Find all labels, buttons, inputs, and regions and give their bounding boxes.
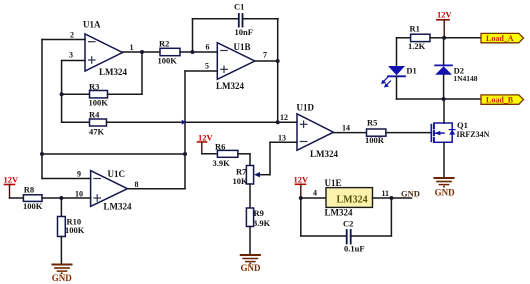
svg-text:100R: 100R bbox=[365, 135, 385, 145]
svg-text:U1A: U1A bbox=[83, 20, 101, 30]
LED D1 bbox=[381, 38, 417, 99]
svg-text:47K: 47K bbox=[89, 127, 105, 137]
svg-text:10K: 10K bbox=[233, 176, 249, 186]
wire U1A pin3 bbox=[62, 60, 85, 62]
transistor Q1 bbox=[431, 120, 489, 143]
svg-text:U1E: U1E bbox=[325, 178, 342, 188]
svg-text:C2: C2 bbox=[343, 219, 353, 229]
node U1B out bbox=[276, 59, 280, 63]
resistor R9 bbox=[246, 184, 270, 255]
op-amp U1B bbox=[205, 42, 267, 91]
wire load rail bbox=[397, 98, 482, 100]
svg-text:LM324: LM324 bbox=[99, 67, 127, 77]
svg-text:100K: 100K bbox=[23, 201, 43, 211]
svg-text:Load_A: Load_A bbox=[486, 34, 514, 43]
svg-text:C1: C1 bbox=[234, 2, 244, 12]
port Load_A bbox=[481, 33, 524, 43]
port Load_B bbox=[481, 95, 524, 105]
svg-text:3: 3 bbox=[69, 51, 73, 60]
svg-text:12V: 12V bbox=[437, 10, 453, 20]
resistor R2 bbox=[158, 39, 218, 66]
svg-text:D1: D1 bbox=[406, 66, 416, 76]
svg-text:IRFZ34N: IRFZ34N bbox=[457, 130, 490, 139]
svg-text:R1: R1 bbox=[410, 24, 420, 34]
svg-text:U1D: U1D bbox=[297, 103, 315, 113]
svg-text:GND: GND bbox=[435, 188, 456, 198]
svg-text:6: 6 bbox=[206, 43, 210, 52]
svg-text:12: 12 bbox=[280, 113, 288, 122]
svg-text:LM324: LM324 bbox=[216, 81, 244, 91]
svg-text:0.1uF: 0.1uF bbox=[344, 244, 365, 254]
node drain rail bbox=[442, 97, 446, 101]
svg-text:3.9K: 3.9K bbox=[213, 158, 231, 168]
capacitor C1 bbox=[193, 2, 279, 38]
resistor R4 bbox=[62, 110, 107, 137]
svg-text:R2: R2 bbox=[159, 39, 169, 49]
resistor R10 bbox=[58, 198, 85, 265]
wire U1A output bbox=[123, 51, 161, 53]
op-amp U1C bbox=[75, 169, 139, 212]
op-amp U1D bbox=[278, 103, 350, 160]
svg-text:1.2K: 1.2K bbox=[408, 41, 426, 51]
svg-text:U1B: U1B bbox=[234, 42, 251, 52]
svg-text:GND: GND bbox=[241, 263, 262, 273]
svg-text:Q1: Q1 bbox=[457, 120, 468, 130]
node ref mid bbox=[183, 152, 187, 156]
wire U1A pin2 bbox=[42, 39, 85, 41]
node 12V pin4 bbox=[299, 196, 303, 200]
resistor R6 bbox=[202, 142, 250, 169]
svg-text:14: 14 bbox=[342, 124, 350, 133]
wire to Load_A bbox=[444, 37, 481, 39]
node 12V rail bbox=[442, 36, 446, 40]
svg-text:100K: 100K bbox=[89, 98, 109, 108]
wire U1C pin9 bbox=[42, 178, 91, 180]
svg-text:1N4148: 1N4148 bbox=[453, 74, 477, 83]
svg-text:R9: R9 bbox=[254, 208, 264, 218]
svg-text:9: 9 bbox=[77, 170, 81, 179]
svg-text:LM324: LM324 bbox=[337, 195, 368, 206]
wire ref horizontal bbox=[42, 153, 185, 155]
wire feedback vertical bbox=[61, 61, 63, 123]
node ref-left bbox=[40, 152, 44, 156]
ground under R10 bbox=[52, 265, 73, 284]
svg-text:2: 2 bbox=[70, 31, 74, 40]
wire ref vertical mid bbox=[184, 71, 186, 189]
wire Q1 drain up bbox=[443, 99, 445, 123]
power 12V left bbox=[4, 175, 20, 199]
svg-text:7: 7 bbox=[263, 51, 267, 60]
wire C1 right down to U1B out bbox=[277, 19, 279, 123]
svg-text:R7: R7 bbox=[236, 167, 247, 177]
ground under Q1 bbox=[434, 178, 455, 198]
svg-text:LM324: LM324 bbox=[310, 149, 338, 159]
power 12V mid bbox=[198, 133, 214, 154]
svg-text:1: 1 bbox=[130, 43, 134, 52]
svg-text:10nF: 10nF bbox=[235, 27, 253, 37]
wire R3 to U1A out bbox=[141, 52, 143, 94]
node R2 right bbox=[191, 50, 195, 54]
wire triangle signal to U1D pin12 bbox=[107, 121, 298, 123]
resistor R5 bbox=[365, 117, 431, 145]
wire U1B output bbox=[255, 60, 278, 62]
op-amp U1A bbox=[69, 20, 134, 78]
wire R7 wiper to U1D pin13 bbox=[269, 142, 271, 174]
capacitor C2 bbox=[301, 198, 392, 254]
diode D2 bbox=[435, 38, 478, 99]
node R3 left bbox=[60, 92, 64, 96]
wire U1E pin11 bbox=[373, 197, 412, 199]
svg-text:12V: 12V bbox=[4, 175, 20, 185]
svg-text:10: 10 bbox=[75, 190, 83, 199]
svg-text:R6: R6 bbox=[215, 142, 225, 152]
svg-text:R8: R8 bbox=[24, 185, 34, 195]
power 12V U1E bbox=[294, 175, 310, 199]
wire U1C out bbox=[127, 188, 185, 190]
wire Q1 source down bbox=[443, 142, 445, 177]
node pin11 bbox=[389, 196, 393, 200]
ground under R9 bbox=[241, 255, 262, 273]
node U1A out bbox=[140, 50, 144, 54]
svg-text:R3: R3 bbox=[89, 82, 99, 92]
svg-text:GND: GND bbox=[401, 189, 420, 199]
svg-text:5: 5 bbox=[205, 62, 209, 71]
svg-text:U1C: U1C bbox=[108, 169, 126, 179]
potentiometer R7 bbox=[233, 154, 271, 186]
svg-text:R5: R5 bbox=[367, 117, 377, 127]
svg-text:100K: 100K bbox=[158, 56, 178, 66]
wire crossing artifact bbox=[182, 120, 186, 125]
svg-text:11: 11 bbox=[382, 189, 390, 198]
svg-text:Load_B: Load_B bbox=[486, 96, 514, 105]
resistor R3 bbox=[62, 82, 142, 108]
op-amp U1E power block bbox=[301, 178, 389, 218]
svg-text:8: 8 bbox=[135, 180, 139, 189]
svg-text:3.9K: 3.9K bbox=[253, 218, 271, 228]
svg-text:LM324: LM324 bbox=[325, 208, 353, 218]
node R8/R10 bbox=[59, 196, 63, 200]
node triangle to comparator bbox=[276, 120, 280, 124]
wire U1B pin5 bbox=[185, 70, 217, 72]
wire ref vertical left bbox=[41, 40, 43, 179]
svg-text:12V: 12V bbox=[198, 133, 214, 143]
svg-text:100K: 100K bbox=[65, 225, 85, 235]
resistor R8 bbox=[10, 185, 91, 212]
svg-text:13: 13 bbox=[278, 134, 286, 143]
wire U1D output bbox=[333, 132, 366, 134]
svg-text:R4: R4 bbox=[89, 110, 100, 120]
resistor R1 bbox=[397, 24, 445, 51]
svg-text:4: 4 bbox=[313, 189, 317, 198]
svg-text:LM324: LM324 bbox=[104, 202, 132, 212]
power 12V top right bbox=[437, 10, 453, 38]
svg-text:12V: 12V bbox=[294, 175, 310, 185]
wire up to C1 bbox=[192, 19, 194, 52]
svg-text:GND: GND bbox=[52, 273, 73, 283]
